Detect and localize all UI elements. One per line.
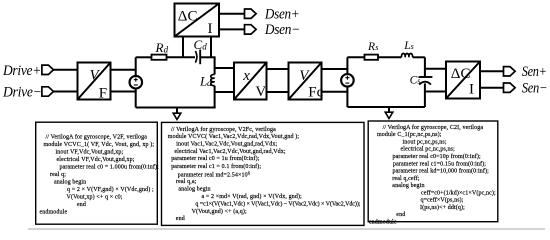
svg-text:Fc: Fc xyxy=(308,85,323,101)
svg-text:s: s xyxy=(417,77,420,86)
svg-text:analog begin: analog begin xyxy=(54,179,86,185)
inductor Ld xyxy=(211,74,215,85)
label Ls xyxy=(403,40,414,52)
port Sen+ xyxy=(503,67,515,76)
svg-text:s: s xyxy=(375,43,378,52)
port Drive+ xyxy=(42,65,54,74)
code text V2Fc xyxy=(168,126,361,222)
svg-text:Drive−: Drive− xyxy=(2,85,41,101)
svg-text:endmodule: endmodule xyxy=(40,209,68,215)
wire x/V to V/Fc bottom xyxy=(267,91,289,93)
ground G1 xyxy=(173,108,181,120)
wire x/V to V/Fc top xyxy=(267,68,289,70)
svg-text:Drive+: Drive+ xyxy=(2,63,41,79)
wire loop1 top left segment xyxy=(136,56,152,58)
wire loop1 left vertical lower xyxy=(135,88,137,107)
svg-text:// VerilogA for gyroscope, C2I: // VerilogA for gyroscope, C2I, veriloga xyxy=(383,124,484,131)
port Drive- xyxy=(42,87,54,96)
svg-text:real q;: real q; xyxy=(50,172,66,178)
svg-text:end: end xyxy=(77,202,86,208)
wire loop1 right vertical lower xyxy=(214,86,216,108)
resistor Rd xyxy=(152,55,167,60)
svg-text:end: end xyxy=(176,216,185,222)
resistor Rs xyxy=(365,55,379,60)
svg-text:parameter real c0=10p from(0:i: parameter real c0=10p from(0:inf); xyxy=(393,153,481,160)
svg-text:d: d xyxy=(202,41,207,51)
svg-text:V: V xyxy=(255,84,266,100)
svg-text:Sen−: Sen− xyxy=(522,80,548,96)
svg-text:L: L xyxy=(199,74,207,89)
wire Drive+ to V/F xyxy=(53,69,78,71)
svg-text:inout VF,Vdc,Vout,gnd,xp;: inout VF,Vdc,Vout,gnd,xp; xyxy=(56,149,124,155)
wire stub to dC/I right xyxy=(210,37,212,57)
svg-text:electrical pc,nc,ps,ns;: electrical pc,nc,ps,ns; xyxy=(401,147,456,153)
code text C2I xyxy=(369,124,496,226)
svg-text:C: C xyxy=(194,37,203,52)
wire stub to dC/I left xyxy=(182,37,184,57)
label Sen- xyxy=(522,80,548,96)
capacitor Cs xyxy=(419,77,433,85)
label Rs xyxy=(367,41,378,53)
svg-text:x: x xyxy=(242,68,250,84)
wire dC/I to Dsen- xyxy=(219,28,244,30)
svg-text:module VCVC_1( VF, Vdc, Vout,: module VCVC_1( VF, Vdc, Vout, gnd, xp ); xyxy=(44,141,155,148)
wire loop2 bottom xyxy=(347,106,425,108)
svg-text:analog begin: analog begin xyxy=(392,183,424,189)
code box 2 V2Fc xyxy=(162,122,365,225)
wire dC/I to Dsen+ xyxy=(219,13,244,15)
svg-text:module C_1(pc,nc,ps,ns);: module C_1(pc,nc,ps,ns); xyxy=(377,131,442,138)
wire loop2 left vertical upper xyxy=(346,57,348,74)
source V1 xyxy=(130,76,143,89)
wire dC/I2 to Sen+ xyxy=(480,70,503,72)
label Dsen+ xyxy=(264,6,299,22)
svg-text:analog begin: analog begin xyxy=(178,186,210,192)
wire loop1 right vertical upper xyxy=(214,57,216,74)
svg-text:F: F xyxy=(99,86,107,102)
svg-text:endmodule: endmodule xyxy=(369,220,397,226)
wire Ld top to x/V xyxy=(215,67,234,69)
wire Drive- to V/F xyxy=(53,91,78,93)
wire Rd to Cd xyxy=(167,56,196,58)
label Rd xyxy=(155,40,169,55)
svg-text:ceff=c0+(1/kd)×c1×V(pc,nc);: ceff=c0+(1/kd)×c1×V(pc,nc); xyxy=(421,189,496,196)
label Drive- xyxy=(2,85,41,101)
svg-text:ΔC: ΔC xyxy=(451,66,471,82)
capacitor Cd xyxy=(195,50,200,65)
svg-text:inout pc,nc,ps,ns;: inout pc,nc,ps,ns; xyxy=(403,140,447,146)
svg-text:ΔC: ΔC xyxy=(178,9,198,25)
port Dsen+ xyxy=(245,9,257,18)
svg-text:I: I xyxy=(469,82,474,98)
port Dsen- xyxy=(245,25,257,34)
svg-text:parameter real kd=10,000 from(: parameter real kd=10,000 from(0:inf); xyxy=(393,168,490,175)
svg-text:d: d xyxy=(207,78,212,88)
wire V/Fc bottom out xyxy=(322,91,349,93)
label Sen+ xyxy=(522,64,547,80)
svg-text:a = 2 ×md× V(rad, gnd) × V(Vdx: a = 2 ×md× V(rad, gnd) × V(Vdx, gnd); xyxy=(202,193,303,200)
wire loop2 top left segment xyxy=(347,56,364,58)
svg-text:q = 2 × V(VF,gnd) × V(Vdc,gnd): q = 2 × V(VF,gnd) × V(Vdc,gnd) ; xyxy=(67,186,154,193)
wire loop1 left vertical upper xyxy=(135,57,137,76)
block U2 dC/I drive sense xyxy=(175,4,220,38)
svg-text:L: L xyxy=(403,40,410,52)
svg-text:parameter real c0 = 1.000u fro: parameter real c0 = 1.000u from(0:inf); xyxy=(60,163,160,170)
inductor Ls xyxy=(401,53,412,57)
wire Rs to Ls xyxy=(378,56,402,58)
svg-text:V(Vout,xp) <+ q × c0;: V(Vout,xp) <+ q × c0; xyxy=(67,193,123,200)
svg-text:s: s xyxy=(411,42,414,51)
wire Ld bottom to x/V xyxy=(215,91,234,93)
block U3 x/V xyxy=(234,63,267,100)
block U5 dC/I sense xyxy=(446,62,480,99)
wire dC/I2 to Sen- xyxy=(480,87,503,89)
label Cs xyxy=(410,74,421,86)
svg-text:parameter real c0 = 1u from(0: parameter real c0 = 1u from(0:inf); xyxy=(171,155,260,162)
svg-text:electrical VF,Vdc,Vout,gnd,xp;: electrical VF,Vdc,Vout,gnd,xp; xyxy=(57,157,135,163)
wire V/Fc top out xyxy=(322,68,349,70)
svg-text:end: end xyxy=(396,212,405,218)
wire V/F bottom out to node xyxy=(111,91,137,93)
svg-text:parameter real md=2.54×106: parameter real md=2.54×106 xyxy=(178,170,251,178)
svg-text:V(Vout,gnd) <+ (a,q);: V(Vout,gnd) <+ (a,q); xyxy=(192,208,247,215)
wire loop2 left vertical lower xyxy=(346,86,348,107)
svg-text:inout Vac1,Vac2,Vdc,Vout,gnd,r: inout Vac1,Vac2,Vdc,Vout,gnd,rad,Vdx; xyxy=(176,142,277,148)
svg-text:I: I xyxy=(208,21,213,37)
label Drive+ xyxy=(2,63,41,79)
svg-text:real q,a;: real q,a; xyxy=(176,179,197,185)
label Ld xyxy=(199,74,212,89)
code text V2F xyxy=(40,133,160,215)
svg-text:Dsen+: Dsen+ xyxy=(264,6,299,22)
wire Cs bottom to dC/I2 xyxy=(425,91,446,93)
svg-text:d: d xyxy=(164,44,169,54)
svg-text:real q,ceff;: real q,ceff; xyxy=(392,175,420,182)
code box 3 C2I xyxy=(368,121,498,222)
svg-text:Dsen−: Dsen− xyxy=(264,22,300,38)
svg-text:R: R xyxy=(367,41,375,53)
wire V/F top out to node xyxy=(111,69,137,71)
ground G2 xyxy=(385,107,393,119)
wire Cd to corner xyxy=(201,56,216,58)
svg-text:module VCVC( Vac1,Vac2,Vdc,rad: module VCVC( Vac1,Vac2,Vdc,rad,Vdx,Vout,… xyxy=(168,133,300,140)
svg-text:// VerilogA for gyroscope, V2F: // VerilogA for gyroscope, V2Fc, verilog… xyxy=(171,126,276,133)
wire loop2 right vertical lower xyxy=(424,83,426,107)
svg-text:q=ceff×V(ps,ns);: q=ceff×V(ps,ns); xyxy=(421,197,464,204)
wire Ls to corner xyxy=(413,56,425,58)
baseline shadow xyxy=(28,228,545,230)
wire loop1 bottom xyxy=(136,107,216,109)
code box 1 V2F xyxy=(36,122,158,224)
svg-text:// VerilogA for gyroscope, V2F: // VerilogA for gyroscope, V2F, veriloga xyxy=(46,133,148,140)
svg-text:I(ps,ns)<+ ddt(q);: I(ps,ns)<+ ddt(q); xyxy=(420,204,465,211)
svg-text:q =c1×(V(Vac1,Vdc) × V(Vac1,Vd: q =c1×(V(Vac1,Vdc) × V(Vac1,Vdc) − V(Vac… xyxy=(195,200,360,207)
block U4 V/Fc xyxy=(289,63,324,101)
svg-text:Sen+: Sen+ xyxy=(522,64,547,80)
source V2 xyxy=(341,74,354,87)
label Dsen- xyxy=(264,22,300,38)
svg-text:electrical Vac1,Vac2,Vdc,Vout,: electrical Vac1,Vac2,Vdc,Vout,gnd,rad,Vd… xyxy=(174,149,285,155)
svg-text:parameter real c1=0.15u from(0: parameter real c1=0.15u from(0:inf); xyxy=(393,160,486,167)
svg-text:R: R xyxy=(155,40,164,55)
label Cd xyxy=(194,37,208,52)
wire Cs top to dC/I2 xyxy=(425,68,446,70)
wire loop2 right vertical upper xyxy=(424,57,426,77)
block U1 V/F xyxy=(78,63,111,102)
svg-text:parameter real c1 = 0.1 from(0: parameter real c1 = 0.1 from(0:inf); xyxy=(171,163,261,170)
port Sen- xyxy=(503,83,515,92)
